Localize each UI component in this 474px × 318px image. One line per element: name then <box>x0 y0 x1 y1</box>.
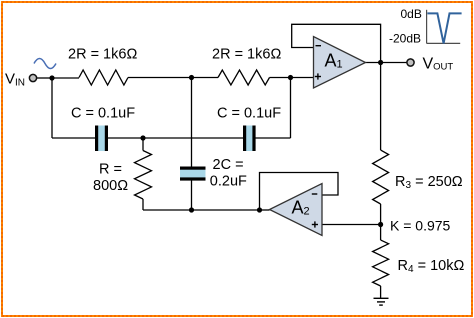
node B: capacitor midpoint <box>140 135 145 140</box>
op-amp A2 <box>270 184 323 236</box>
svg-text:VIN: VIN <box>5 71 25 89</box>
svg-text:0dB: 0dB <box>401 7 422 21</box>
resistor 2R = 1k6 (first) <box>79 70 128 85</box>
terminal VOUT <box>407 59 414 66</box>
svg-text:2R = 1k6Ω: 2R = 1k6Ω <box>68 47 137 63</box>
resistor R3 <box>373 150 389 204</box>
wire node K to R4 <box>380 225 382 241</box>
wire A2 output to rail node <box>260 209 270 211</box>
wire left leg input node down <box>51 78 53 138</box>
node: A1 plus input junction <box>288 75 293 80</box>
svg-text:R3 = 250Ω: R3 = 250Ω <box>395 174 463 191</box>
svg-text:0.2uF: 0.2uF <box>210 174 247 190</box>
node K junction <box>378 222 383 227</box>
wire cap C1 to node B <box>108 137 143 139</box>
svg-text:R =: R = <box>99 162 122 178</box>
wire A2 plus input to node K <box>322 224 381 226</box>
svg-text:2R = 1k6Ω: 2R = 1k6Ω <box>212 47 281 63</box>
wire resistor midpoint down to 2C <box>191 78 193 167</box>
wire right riser up to plus node <box>290 78 292 139</box>
wire 2C bottom to rail <box>191 181 193 211</box>
node A: resistor midpoint <box>189 75 194 80</box>
svg-text:-20dB: -20dB <box>389 32 421 46</box>
wire R3 to node K <box>380 204 382 225</box>
wire resistor1 to resistor2 (through node A) <box>128 77 218 79</box>
ground <box>374 298 389 305</box>
wire R4 to ground <box>380 286 382 298</box>
svg-text:C = 0.1uF: C = 0.1uF <box>217 106 281 122</box>
wire bottom rail <box>143 209 260 211</box>
capacitor 2C = 0.2uF <box>180 167 206 181</box>
svg-text:2C =: 2C = <box>213 157 244 173</box>
svg-text:R4 = 10kΩ: R4 = 10kΩ <box>398 258 465 275</box>
wire resistor2 to op-amp A1 plus input <box>270 77 314 79</box>
svg-text:VOUT: VOUT <box>423 56 454 73</box>
frequency response notch curve <box>427 13 461 43</box>
wire A1 feedback loop <box>292 24 381 62</box>
wire A2 feedback loop <box>260 173 339 211</box>
node: 2C bottom on rail <box>189 207 194 212</box>
resistor 2R = 1k6 (second) <box>218 70 270 85</box>
wire A1 output to Vout terminal <box>366 62 407 64</box>
wire cap C2 to right riser <box>256 137 291 139</box>
wire cap row left <box>52 137 95 139</box>
wire node to resistor 2R#1 <box>52 77 79 79</box>
frequency response graph axes <box>427 10 461 44</box>
capacitor C2 = 0.1uF <box>243 126 256 152</box>
resistor R = 800 <box>135 151 152 200</box>
capacitor C1 = 0.1uF <box>95 126 108 152</box>
terminal VIN <box>29 74 36 81</box>
svg-text:C = 0.1uF: C = 0.1uF <box>71 106 135 122</box>
wire R800 top lead <box>142 138 144 151</box>
wire A1 output down to R3 <box>380 63 382 151</box>
node: A1 output junction <box>378 60 383 65</box>
svg-text:800Ω: 800Ω <box>93 178 128 194</box>
resistor R4 <box>373 240 389 286</box>
wire node B to cap C2 <box>143 137 243 139</box>
node: A2 output on rail <box>257 207 262 212</box>
node: input junction <box>49 75 54 80</box>
svg-text:K = 0.975: K = 0.975 <box>390 218 451 234</box>
op-amp A1 <box>314 37 366 89</box>
wire input terminal to node <box>37 77 52 79</box>
wire R800 bottom lead <box>142 199 144 210</box>
source sine symbol <box>34 59 56 69</box>
